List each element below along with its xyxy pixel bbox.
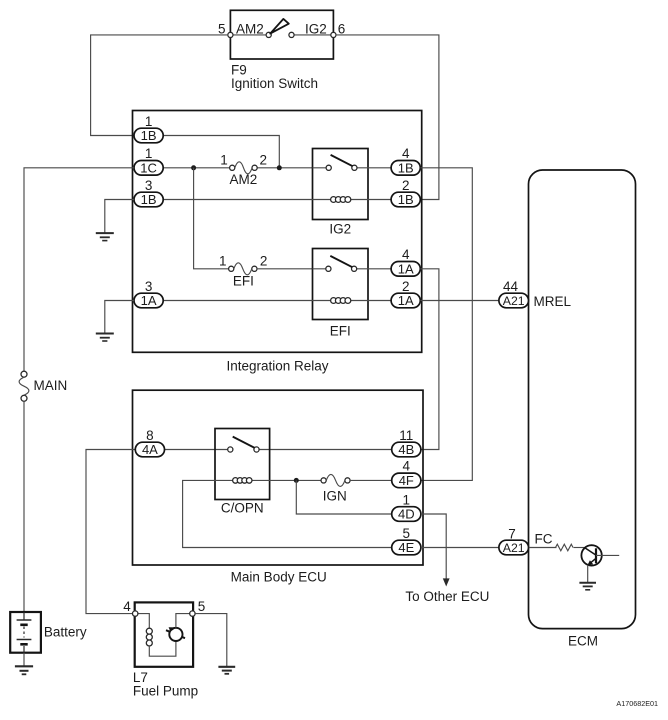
terminal 1/1C of integration relay	[134, 161, 163, 176]
ground for battery	[15, 666, 33, 674]
pin number 3 above 3/1B	[145, 178, 153, 193]
wire: 4D to other ECU	[421, 514, 446, 579]
svg-text:IGN: IGN	[323, 488, 347, 503]
terminal 2/1B of integration relay	[391, 192, 420, 207]
terminal 2/1A of integration relay	[391, 293, 420, 308]
terminal 11/4B of main body ECU	[392, 442, 421, 457]
svg-text:C/OPN: C/OPN	[221, 500, 264, 515]
terminal 3/1B of integration relay	[134, 192, 163, 207]
svg-text:A170682E01: A170682E01	[616, 699, 658, 708]
wire: IGN fuse to 4F	[350, 479, 392, 481]
label ECM	[568, 634, 598, 649]
svg-text:Integration Relay: Integration Relay	[226, 359, 328, 374]
svg-text:To Other ECU: To Other ECU	[405, 589, 489, 604]
wire: ground lead of 3/1A	[105, 301, 134, 334]
wire: 4A feed from fuel pump node	[86, 450, 135, 614]
terminal 5 circle of ignition switch	[228, 32, 233, 37]
terminal 3/1A of integration relay	[134, 293, 163, 308]
node: junction at AM2 fuse output	[277, 165, 282, 170]
pin number 5 of fuel pump	[198, 599, 206, 614]
fuse IGN	[321, 474, 350, 486]
terminal 5/4E of main body ECU	[392, 540, 421, 555]
wire: 4A to C/OPN switch	[165, 449, 228, 451]
wire: C/OPN coil line	[215, 479, 270, 481]
ignition switch box F9	[230, 10, 333, 59]
pin number 4 of fuel pump	[123, 599, 131, 614]
label Main Body ECU	[231, 570, 327, 585]
svg-text:ECM: ECM	[568, 634, 598, 649]
wire: C/OPN coil feed to 4E	[183, 480, 393, 547]
wire: EFI fuse to EFI relay switch	[257, 268, 313, 270]
wire: ground lead of 3/1B	[105, 200, 134, 234]
wire: 3/1B to IG2 coil	[163, 199, 391, 201]
wire: EFI switch stubs	[313, 268, 392, 270]
svg-text:Ignition Switch: Ignition Switch	[231, 76, 318, 91]
label Fuel Pump	[133, 684, 198, 699]
svg-text:FC: FC	[535, 531, 553, 546]
svg-text:1: 1	[403, 492, 411, 507]
svg-text:EFI: EFI	[330, 323, 351, 338]
svg-text:3: 3	[145, 279, 153, 294]
label IG2 relay	[329, 222, 351, 237]
wire: resistor to transistor	[574, 547, 586, 549]
svg-text:2: 2	[260, 152, 268, 167]
coil of relay IG2	[331, 197, 351, 203]
svg-text:4D: 4D	[398, 507, 415, 522]
label F9	[231, 62, 247, 77]
terminal 44/A21 MREL of ECM	[499, 293, 529, 308]
wire: internal fuel pump from pin 4	[138, 614, 149, 629]
svg-text:1A: 1A	[398, 293, 414, 308]
battery	[10, 612, 41, 653]
wire: internal ignition switch AM2 side	[233, 34, 266, 36]
switch contact circles of ignition switch	[266, 32, 294, 37]
wire: 1B pin1 branch to AM2 fuse output node	[163, 136, 279, 168]
motor of fuel pump	[166, 627, 185, 641]
pin number 4 above 4F	[403, 459, 411, 474]
svg-text:4E: 4E	[398, 540, 414, 555]
wire: battery to ground	[23, 653, 25, 667]
value label IGN fuse	[323, 488, 347, 503]
svg-text:4: 4	[402, 247, 410, 262]
relay IG2 box	[313, 149, 369, 220]
svg-text:2: 2	[260, 253, 268, 268]
svg-text:1A: 1A	[398, 262, 414, 277]
C/OPN relay switch contacts	[228, 447, 259, 452]
svg-text:Fuel Pump: Fuel Pump	[133, 684, 198, 699]
svg-text:1B: 1B	[398, 161, 414, 176]
label C/OPN relay	[221, 500, 264, 515]
pin number 44 above A21 MREL	[503, 279, 519, 294]
pin number 3 above 3/1A	[145, 279, 153, 294]
resistor at transistor base	[556, 544, 574, 551]
svg-text:3: 3	[145, 178, 153, 193]
svg-text:1: 1	[219, 253, 227, 268]
pin number 6	[338, 22, 346, 37]
pin number 2 of fuse EFI	[260, 253, 268, 268]
label AM2 (ignition switch)	[236, 22, 264, 37]
pin number 2 above 2/1B	[402, 178, 410, 193]
wire: fuel pump pin 5 to ground	[195, 614, 227, 667]
svg-text:1B: 1B	[141, 128, 157, 143]
wire: terminal 6 down to integration relay pin 2/1B	[336, 35, 439, 200]
wire: AM2 fuse to IG2 relay switch	[257, 167, 313, 169]
arrowhead to other ECU	[443, 578, 450, 586]
pin number 1 of fuse EFI	[219, 253, 227, 268]
wire: motor to pin 5	[176, 614, 190, 628]
terminal 7/A21 FC of ECM	[499, 540, 529, 555]
label Integration Relay	[226, 359, 328, 374]
transistor Q (ECM output)	[581, 545, 601, 565]
integration relay box	[133, 111, 422, 353]
label IG2 (ignition switch)	[305, 22, 327, 37]
terminal 8/4A of main body ECU	[135, 442, 164, 457]
wire: transistor emitter to ground	[587, 565, 589, 583]
terminal 4/1A of integration relay	[391, 262, 420, 277]
pin number 4 above 4/1A	[402, 247, 410, 262]
svg-text:2: 2	[402, 178, 410, 193]
label Ignition Switch	[231, 76, 318, 91]
coil of fuel pump	[146, 628, 152, 646]
fuel pump box L7	[135, 602, 193, 666]
svg-text:1B: 1B	[141, 192, 157, 207]
IG2 relay switch contacts	[326, 165, 357, 170]
node: junction at EFI branch	[191, 165, 196, 170]
ECM box	[529, 170, 636, 629]
svg-text:1C: 1C	[140, 161, 157, 176]
fuse AM2	[230, 162, 258, 174]
svg-text:A21: A21	[503, 541, 525, 555]
fuse EFI	[229, 263, 257, 275]
svg-text:AM2: AM2	[236, 22, 264, 37]
terminal 4/4F of main body ECU	[392, 473, 421, 488]
wire: 3/1A to EFI coil	[163, 300, 391, 302]
svg-text:4B: 4B	[398, 442, 414, 457]
wire: branch down to EFI fuse	[194, 168, 229, 269]
svg-text:MAIN: MAIN	[34, 378, 68, 393]
pin number 1 of fuse AM2	[220, 152, 228, 167]
svg-text:4: 4	[403, 459, 411, 474]
svg-text:1: 1	[145, 146, 153, 161]
EFI relay switch lever	[330, 256, 352, 267]
svg-text:Battery: Battery	[44, 625, 87, 640]
svg-text:2: 2	[402, 279, 410, 294]
wire: IG2 switch stubs	[313, 167, 392, 169]
IG2 relay switch lever	[331, 155, 353, 166]
svg-text:1B: 1B	[398, 192, 414, 207]
net label FC	[535, 531, 553, 546]
svg-text:11: 11	[399, 428, 413, 443]
pin number 8 above 4A	[146, 428, 154, 443]
pin number 5 above 4E	[403, 526, 411, 541]
svg-text:5: 5	[198, 599, 206, 614]
switch lever of ignition switch	[270, 19, 289, 34]
ground for fuel pump	[218, 667, 235, 674]
svg-text:1: 1	[220, 152, 228, 167]
svg-text:EFI: EFI	[233, 274, 254, 289]
wire: battery rail to 1C	[24, 168, 134, 371]
svg-text:1A: 1A	[141, 293, 157, 308]
coil of relay C/OPN	[233, 478, 252, 484]
wire: internal ignition switch IG2 side	[294, 34, 331, 36]
terminal 1/1B of integration relay	[134, 128, 163, 143]
pin number 1 above 1B	[145, 114, 153, 129]
svg-text:4: 4	[402, 146, 410, 161]
net label MREL	[534, 294, 572, 309]
svg-text:4F: 4F	[399, 473, 414, 488]
wire: 4/1A to Main Body ECU 4B	[420, 269, 439, 450]
wire: MAIN to battery	[23, 401, 25, 612]
terminal 4 circle of fuel pump	[133, 611, 138, 616]
label L7	[133, 670, 148, 685]
relay EFI box	[313, 249, 369, 320]
main body ECU box	[133, 390, 424, 565]
svg-text:Main Body ECU: Main Body ECU	[231, 570, 327, 585]
relay C/OPN box	[215, 429, 270, 500]
fusible link MAIN	[19, 371, 29, 401]
label Battery	[44, 625, 87, 640]
svg-text:4A: 4A	[142, 442, 158, 457]
wire: junction to 4D	[296, 480, 391, 514]
wire: coil to IGN fuse	[270, 479, 322, 481]
wire: terminal 5 to integration relay pin 1/1B	[91, 35, 228, 136]
svg-text:44: 44	[503, 279, 519, 294]
svg-text:A21: A21	[503, 294, 525, 308]
wire: FC to base resistor	[529, 547, 557, 549]
wire: 1C to AM2 fuse	[163, 167, 230, 169]
terminal 1/4D of main body ECU	[392, 507, 421, 522]
wire: coil to motor	[149, 641, 176, 656]
ground for 3/1B	[96, 233, 114, 241]
C/OPN relay switch lever	[233, 437, 255, 448]
label To Other ECU	[405, 589, 489, 604]
pin number 2 of fuse AM2	[260, 152, 268, 167]
terminal 5 circle of fuel pump	[190, 611, 195, 616]
coil of relay EFI	[331, 298, 351, 304]
pin number 11 above 4B	[399, 428, 413, 443]
pin number 1 above 4D	[403, 492, 411, 507]
value label EFI fuse	[233, 274, 254, 289]
svg-text:1: 1	[145, 114, 153, 129]
node: junction at IGN fuse input	[294, 478, 299, 483]
terminal 6 circle of ignition switch	[331, 32, 336, 37]
pin number 4 above 4/1B	[402, 146, 410, 161]
EFI relay switch contacts	[326, 266, 357, 271]
value label AM2 fuse	[230, 172, 258, 187]
wire: 2/1A to ECM MREL	[420, 300, 499, 302]
figure code A170682E01	[616, 699, 658, 708]
svg-text:5: 5	[403, 526, 411, 541]
wire: C/OPN switch to 4B	[259, 449, 392, 451]
ground for transistor	[579, 583, 596, 590]
pin number 1 above 1C	[145, 146, 153, 161]
wire: 4/1B to Main Body ECU 4F	[420, 168, 472, 481]
label MAIN	[34, 378, 68, 393]
svg-text:8: 8	[146, 428, 154, 443]
svg-text:MREL: MREL	[534, 294, 572, 309]
wire: 4E to ECM FC	[421, 547, 499, 549]
pin number 2 above 2/1A	[402, 279, 410, 294]
svg-text:IG2: IG2	[329, 222, 351, 237]
ground for 3/1A	[96, 334, 114, 342]
pin number 5	[218, 22, 226, 37]
label EFI relay	[330, 323, 351, 338]
terminal 4/1B of integration relay	[391, 161, 420, 176]
svg-text:7: 7	[508, 526, 516, 541]
svg-text:IG2: IG2	[305, 22, 327, 37]
svg-text:4: 4	[123, 599, 131, 614]
svg-text:AM2: AM2	[230, 172, 258, 187]
wire: transistor collector	[596, 554, 619, 556]
pin number 7 above A21 FC	[508, 526, 516, 541]
